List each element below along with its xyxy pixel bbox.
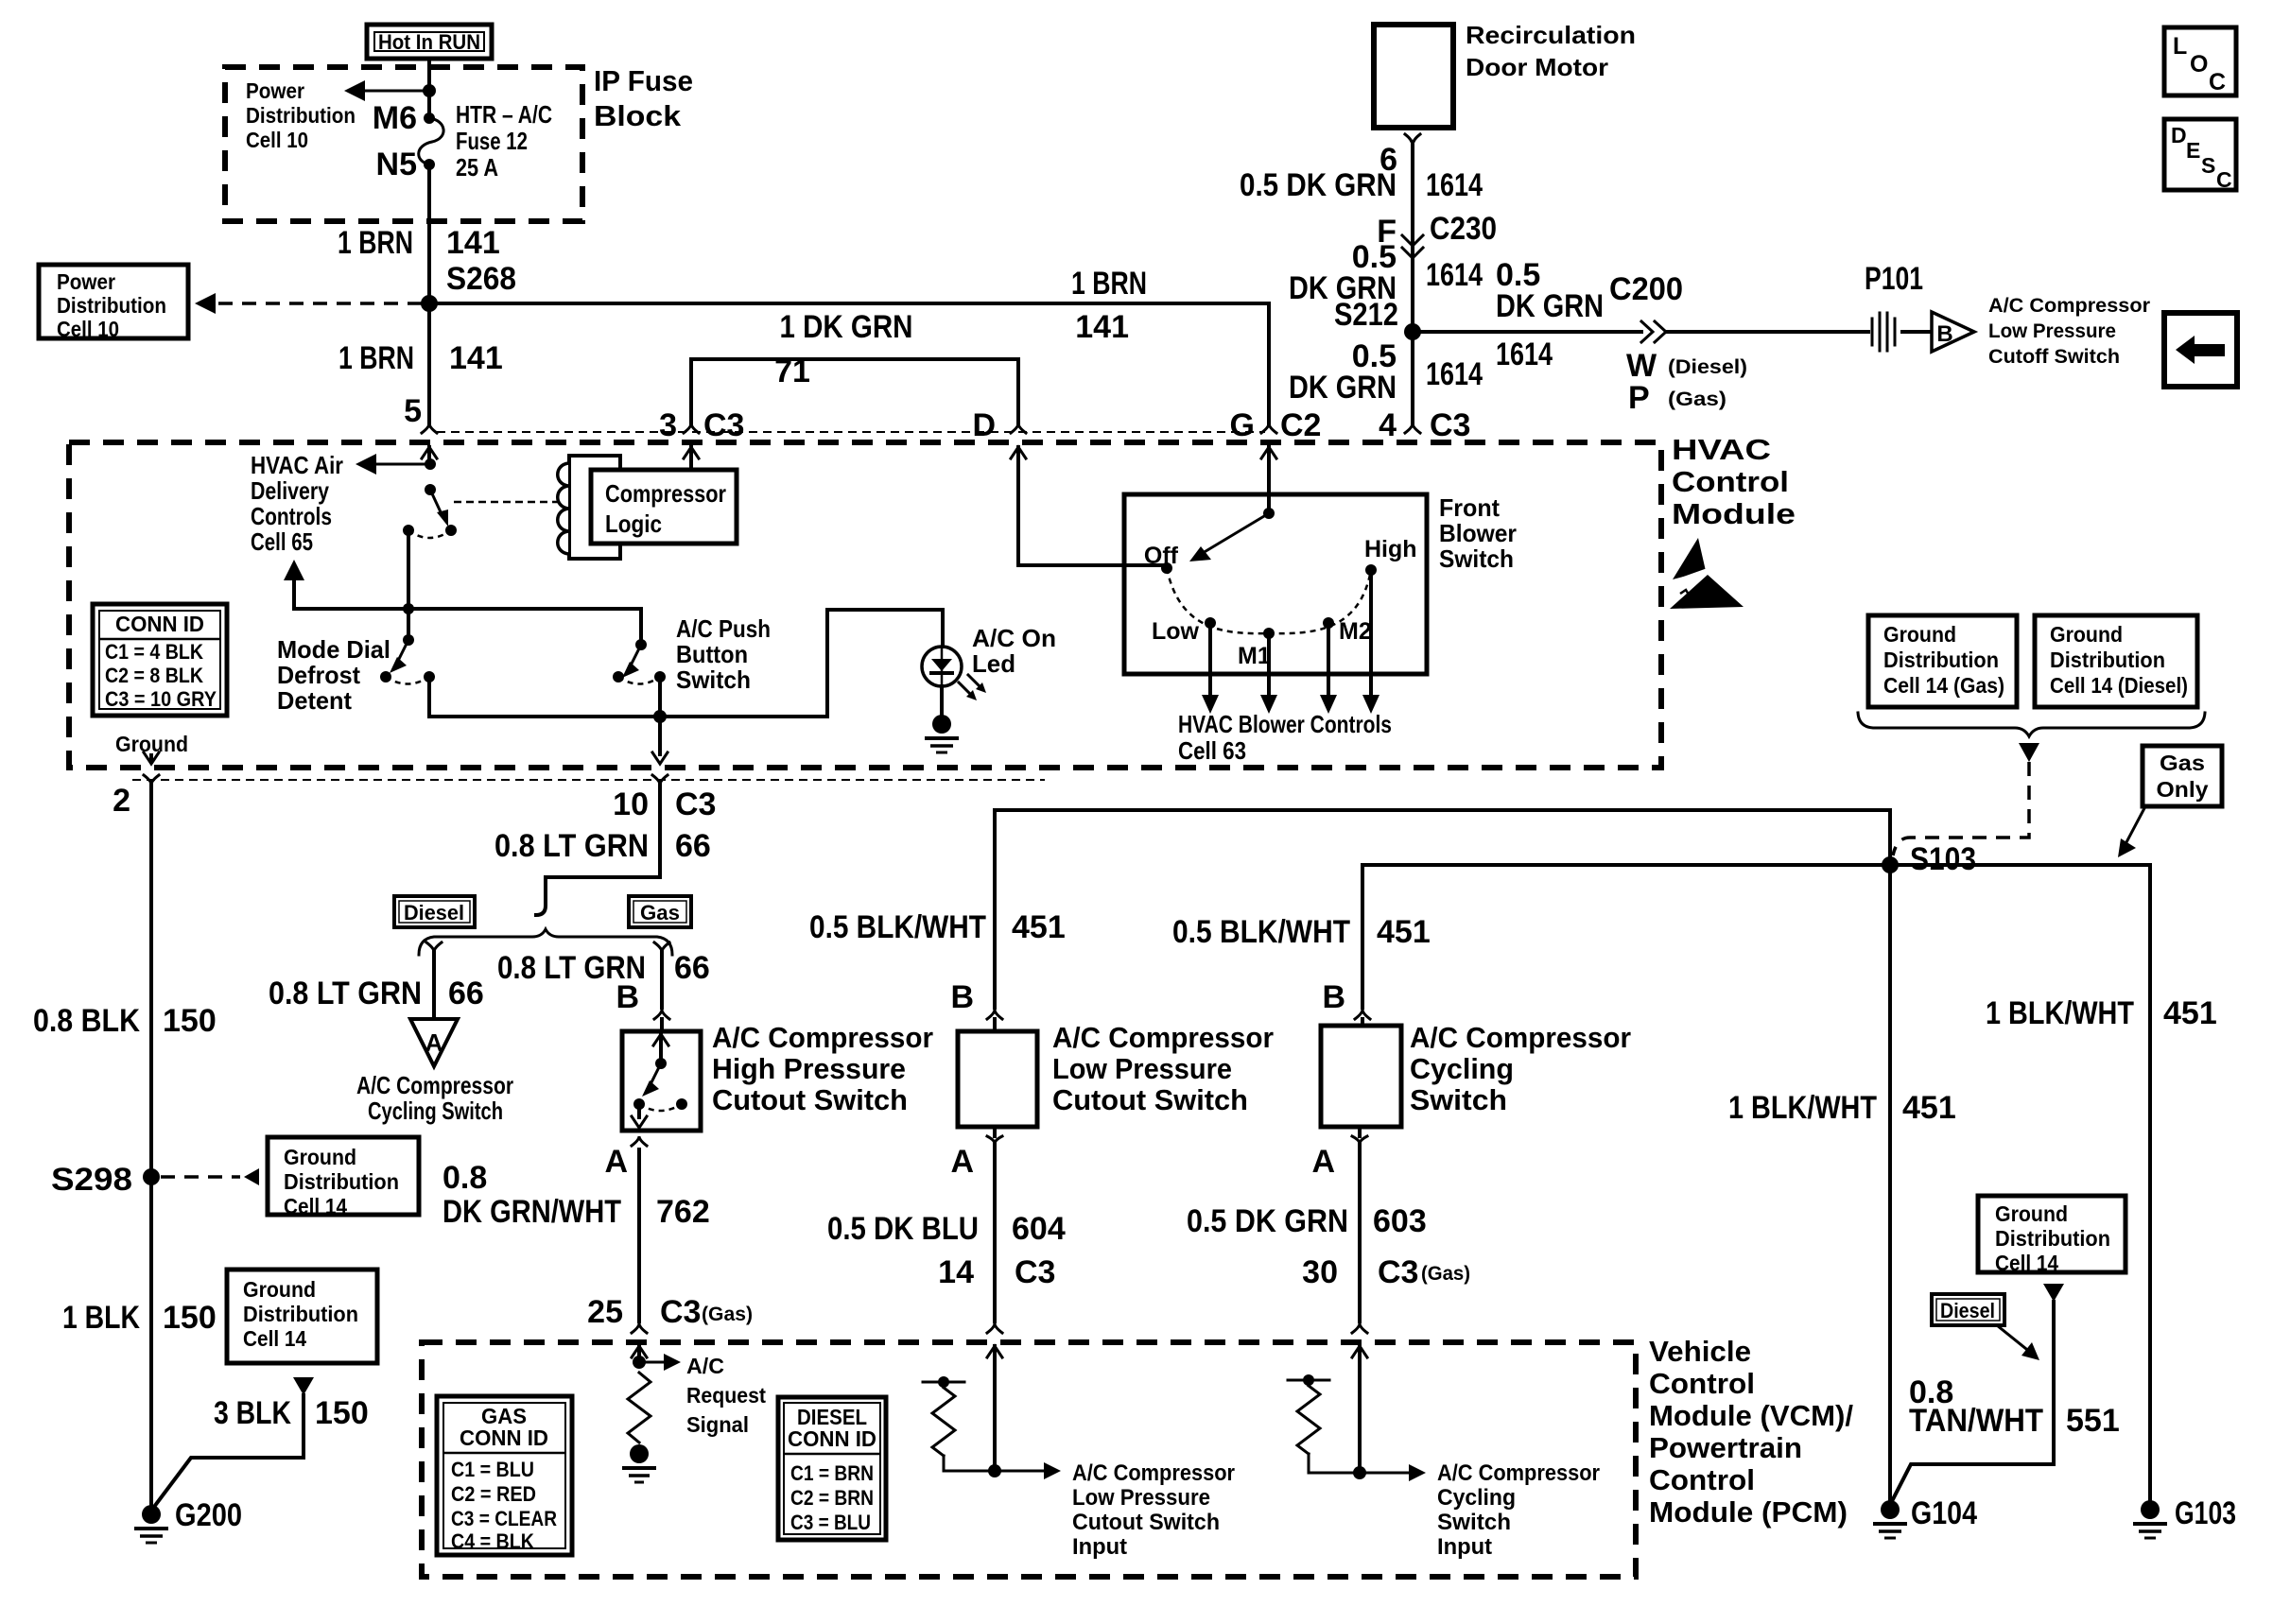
svg-text:A/C On: A/C On [972, 624, 1056, 652]
svg-text:HVAC: HVAC [1672, 433, 1771, 466]
svg-text:E: E [2186, 138, 2200, 163]
svg-text:0.8 BLK: 0.8 BLK [33, 1003, 140, 1039]
svg-text:1 BRN: 1 BRN [338, 225, 413, 261]
svg-text:C3: C3 [1430, 407, 1470, 443]
svg-text:High: High [1364, 536, 1417, 562]
svg-text:IP Fuse: IP Fuse [594, 64, 693, 97]
svg-text:Controls: Controls [251, 502, 332, 530]
svg-text:Cutout Switch: Cutout Switch [712, 1083, 908, 1116]
svg-text:C1 = BRN: C1 = BRN [790, 1461, 874, 1485]
svg-text:0.5 DK GRN: 0.5 DK GRN [1240, 167, 1397, 203]
svg-text:G: G [1230, 407, 1255, 443]
svg-text:Led: Led [972, 649, 1015, 678]
svg-text:A/C: A/C [686, 1354, 724, 1378]
svg-text:C3: C3 [675, 786, 716, 822]
svg-text:TAN/WHT: TAN/WHT [1909, 1403, 2043, 1439]
svg-text:141: 141 [446, 225, 500, 261]
svg-text:C: C [2209, 69, 2226, 95]
svg-text:Only: Only [2157, 777, 2209, 802]
svg-text:Ground: Ground [115, 732, 188, 756]
svg-text:Cell 65: Cell 65 [251, 527, 313, 556]
svg-text:0.8 LT GRN: 0.8 LT GRN [495, 828, 649, 864]
svg-text:Fuse 12: Fuse 12 [456, 127, 528, 155]
svg-text:HTR – A/C: HTR – A/C [456, 100, 552, 129]
svg-text:Door Motor: Door Motor [1466, 53, 1608, 81]
svg-text:C230: C230 [1430, 211, 1497, 247]
svg-text:0.5 DK GRN: 0.5 DK GRN [1187, 1203, 1348, 1239]
svg-text:Block: Block [594, 99, 682, 132]
svg-text:5: 5 [404, 393, 422, 429]
svg-text:141: 141 [449, 340, 503, 376]
svg-text:Diesel: Diesel [1940, 1299, 1995, 1322]
svg-text:S298: S298 [51, 1162, 132, 1198]
svg-text:C3: C3 [703, 407, 744, 443]
svg-text:DK GRN: DK GRN [1496, 288, 1604, 324]
svg-text:A/C Compressor: A/C Compressor [356, 1071, 513, 1099]
svg-text:W: W [1626, 348, 1657, 384]
svg-text:S268: S268 [446, 261, 516, 297]
svg-text:Cell 14 (Diesel): Cell 14 (Diesel) [2050, 673, 2188, 698]
svg-text:Control: Control [1649, 1463, 1755, 1496]
svg-text:DK GRN: DK GRN [1289, 370, 1397, 406]
svg-text:Switch: Switch [1439, 544, 1514, 573]
svg-text:Cutoff Switch: Cutoff Switch [1988, 346, 2120, 368]
svg-text:O: O [2190, 51, 2208, 78]
svg-text:451: 451 [1902, 1090, 1956, 1126]
svg-text:150: 150 [163, 1003, 217, 1039]
svg-text:C3 = BLU: C3 = BLU [790, 1511, 871, 1534]
svg-text:Distribution: Distribution [284, 1169, 399, 1194]
svg-text:G104: G104 [1911, 1495, 1977, 1531]
svg-text:C2 = RED: C2 = RED [451, 1482, 536, 1506]
svg-text:M2: M2 [1339, 618, 1372, 645]
svg-text:Vehicle: Vehicle [1649, 1335, 1751, 1368]
svg-text:L: L [2173, 33, 2187, 60]
svg-text:30: 30 [1302, 1254, 1338, 1290]
svg-text:B: B [1322, 979, 1345, 1015]
svg-text:451: 451 [2163, 995, 2217, 1031]
svg-text:Distribution: Distribution [243, 1302, 358, 1326]
svg-text:P: P [1628, 380, 1650, 416]
svg-text:1 DK GRN: 1 DK GRN [780, 309, 913, 345]
svg-text:Ground: Ground [243, 1277, 316, 1302]
svg-text:Ground: Ground [284, 1145, 356, 1169]
svg-text:Compressor: Compressor [605, 479, 726, 508]
svg-text:C2 = 8 BLK: C2 = 8 BLK [105, 664, 203, 687]
svg-text:Cell 14: Cell 14 [284, 1194, 347, 1218]
svg-text:66: 66 [448, 976, 484, 1011]
svg-text:Distribution: Distribution [1995, 1226, 2110, 1251]
svg-text:S212: S212 [1334, 297, 1398, 333]
svg-text:Cycling: Cycling [1410, 1052, 1514, 1085]
svg-text:Cell 14: Cell 14 [243, 1326, 306, 1351]
svg-text:M6: M6 [373, 100, 417, 136]
svg-text:D: D [2171, 123, 2187, 147]
svg-text:Cutout Switch: Cutout Switch [1072, 1510, 1220, 1535]
svg-text:HVAC Air: HVAC Air [251, 451, 343, 479]
svg-text:Ground: Ground [2050, 622, 2123, 647]
svg-text:(Gas): (Gas) [702, 1304, 753, 1325]
svg-text:C3: C3 [1015, 1254, 1055, 1290]
svg-text:Diesel: Diesel [404, 901, 464, 924]
svg-text:150: 150 [163, 1300, 217, 1336]
svg-text:451: 451 [1012, 909, 1066, 945]
svg-text:0.5 BLK/WHT: 0.5 BLK/WHT [1172, 914, 1350, 950]
svg-text:Request: Request [686, 1383, 766, 1408]
svg-text:C3: C3 [660, 1294, 701, 1330]
svg-text:1 BLK/WHT: 1 BLK/WHT [1986, 995, 2134, 1031]
svg-text:Button: Button [676, 640, 748, 668]
svg-text:1 BLK/WHT: 1 BLK/WHT [1728, 1090, 1877, 1126]
svg-text:A: A [950, 1144, 974, 1180]
svg-text:Delivery: Delivery [251, 476, 329, 505]
svg-text:Input: Input [1072, 1534, 1127, 1560]
svg-text:Power: Power [57, 269, 115, 294]
svg-text:551: 551 [2066, 1403, 2120, 1439]
svg-text:3 BLK: 3 BLK [214, 1395, 291, 1431]
svg-text:C1 = BLU: C1 = BLU [451, 1458, 534, 1481]
svg-text:A: A [1311, 1144, 1335, 1180]
svg-text:Logic: Logic [605, 510, 662, 538]
svg-text:N5: N5 [376, 147, 417, 182]
svg-text:1614: 1614 [1496, 337, 1553, 372]
svg-text:Distribution: Distribution [246, 103, 356, 128]
svg-text:G200: G200 [175, 1497, 242, 1533]
svg-text:CONN ID: CONN ID [460, 1425, 548, 1450]
svg-text:Defrost: Defrost [277, 661, 360, 689]
svg-text:G103: G103 [2175, 1495, 2236, 1531]
svg-text:A/C Compressor: A/C Compressor [1437, 1460, 1600, 1486]
svg-text:Mode Dial: Mode Dial [277, 635, 390, 664]
svg-text:Low Pressure: Low Pressure [1052, 1052, 1232, 1085]
svg-text:0.5 BLK/WHT: 0.5 BLK/WHT [809, 909, 986, 945]
svg-text:Recirculation: Recirculation [1466, 21, 1636, 49]
svg-text:D: D [972, 407, 996, 443]
svg-text:Distribution: Distribution [57, 293, 166, 318]
svg-text:C3 = CLEAR: C3 = CLEAR [451, 1507, 557, 1530]
svg-text:A/C Compressor: A/C Compressor [1052, 1021, 1274, 1054]
svg-text:(Gas): (Gas) [1668, 389, 1726, 410]
svg-text:A/C Compressor: A/C Compressor [1410, 1021, 1631, 1054]
svg-text:Cell 14 (Gas): Cell 14 (Gas) [1883, 673, 2004, 698]
svg-text:Detent: Detent [277, 686, 352, 715]
svg-text:M1: M1 [1238, 643, 1271, 669]
svg-text:C200: C200 [1609, 271, 1683, 307]
svg-text:A/C Compressor: A/C Compressor [1988, 295, 2150, 317]
svg-text:Cell 10: Cell 10 [57, 317, 119, 341]
svg-text:C3: C3 [1378, 1254, 1418, 1290]
svg-text:1614: 1614 [1426, 356, 1483, 392]
svg-text:Module (PCM): Module (PCM) [1649, 1495, 1848, 1529]
svg-text:A/C Compressor: A/C Compressor [1072, 1460, 1235, 1486]
svg-text:3: 3 [659, 407, 677, 443]
svg-text:Off: Off [1144, 543, 1179, 569]
svg-text:10: 10 [613, 786, 649, 822]
svg-text:Gas: Gas [2160, 751, 2205, 775]
svg-text:451: 451 [1377, 914, 1431, 950]
svg-text:Blower: Blower [1439, 519, 1517, 547]
svg-text:Hot In RUN: Hot In RUN [378, 30, 480, 54]
svg-text:Control: Control [1649, 1367, 1755, 1400]
svg-text:Module (VCM)/: Module (VCM)/ [1649, 1399, 1853, 1432]
svg-text:Switch: Switch [1410, 1083, 1507, 1116]
svg-text:Cutout Switch: Cutout Switch [1052, 1083, 1248, 1116]
svg-text:Control: Control [1672, 465, 1789, 498]
svg-text:1614: 1614 [1426, 167, 1483, 203]
svg-text:Gas: Gas [640, 901, 680, 924]
svg-text:Power: Power [246, 78, 304, 103]
svg-text:0.8 LT GRN: 0.8 LT GRN [269, 976, 422, 1011]
svg-text:Cycling Switch: Cycling Switch [368, 1097, 503, 1125]
svg-text:C: C [2216, 167, 2232, 192]
svg-text:0.8: 0.8 [442, 1160, 487, 1196]
svg-text:Low: Low [1152, 618, 1200, 645]
svg-text:CONN ID: CONN ID [115, 612, 204, 636]
svg-text:4: 4 [1379, 407, 1397, 443]
svg-text:603: 603 [1373, 1203, 1427, 1239]
svg-text:Switch: Switch [1437, 1510, 1511, 1535]
svg-text:Powertrain: Powertrain [1649, 1431, 1802, 1464]
svg-text:C2 = BRN: C2 = BRN [790, 1486, 874, 1510]
svg-text:1 BRN: 1 BRN [1071, 266, 1147, 302]
svg-text:Cycling: Cycling [1437, 1485, 1516, 1511]
svg-text:141: 141 [1075, 309, 1129, 345]
svg-text:Switch: Switch [676, 665, 751, 694]
svg-text:71: 71 [774, 354, 810, 389]
svg-text:1614: 1614 [1426, 257, 1483, 293]
svg-text:762: 762 [656, 1194, 710, 1230]
svg-text:S: S [2201, 153, 2215, 178]
svg-text:P101: P101 [1865, 261, 1923, 297]
svg-text:Module: Module [1672, 497, 1796, 530]
svg-text:A: A [604, 1144, 628, 1180]
svg-text:(Diesel): (Diesel) [1668, 356, 1747, 378]
svg-text:25 A: 25 A [456, 153, 498, 181]
svg-text:150: 150 [315, 1395, 369, 1431]
svg-text:(Gas): (Gas) [1421, 1263, 1470, 1285]
svg-text:1 BRN: 1 BRN [338, 340, 414, 376]
svg-text:Distribution: Distribution [1883, 648, 1999, 672]
svg-text:B: B [616, 979, 639, 1015]
svg-text:Low Pressure: Low Pressure [1988, 320, 2116, 342]
svg-text:B: B [1936, 321, 1952, 347]
svg-text:A: A [425, 1028, 443, 1057]
svg-text:604: 604 [1012, 1211, 1066, 1247]
svg-text:Ground: Ground [1995, 1201, 2068, 1226]
svg-text:B: B [950, 979, 974, 1015]
svg-text:Front: Front [1439, 493, 1500, 522]
svg-text:C1 = 4 BLK: C1 = 4 BLK [105, 640, 203, 664]
svg-text:C2: C2 [1280, 407, 1321, 443]
svg-text:A/C Push: A/C Push [676, 614, 771, 643]
svg-text:High Pressure: High Pressure [712, 1052, 906, 1085]
svg-text:66: 66 [674, 950, 710, 986]
svg-text:C3 = 10 GRY: C3 = 10 GRY [105, 687, 217, 711]
svg-text:2: 2 [113, 783, 130, 819]
svg-text:CONN ID: CONN ID [788, 1426, 876, 1451]
svg-text:1 BLK: 1 BLK [62, 1300, 140, 1336]
svg-text:Cell 14: Cell 14 [1995, 1251, 2058, 1275]
svg-text:HVAC Blower Controls: HVAC Blower Controls [1178, 710, 1392, 738]
svg-text:25: 25 [587, 1294, 623, 1330]
svg-text:14: 14 [938, 1254, 974, 1290]
svg-text:Cell 10: Cell 10 [246, 128, 308, 152]
svg-text:66: 66 [675, 828, 711, 864]
svg-text:Low Pressure: Low Pressure [1072, 1485, 1210, 1511]
svg-text:A/C Compressor: A/C Compressor [712, 1021, 933, 1054]
svg-text:Input: Input [1437, 1534, 1492, 1560]
svg-text:Ground: Ground [1883, 622, 1956, 647]
svg-text:Distribution: Distribution [2050, 648, 2165, 672]
svg-text:Signal: Signal [686, 1412, 749, 1437]
svg-text:0.5 DK BLU: 0.5 DK BLU [827, 1211, 979, 1247]
svg-text:DK GRN/WHT: DK GRN/WHT [442, 1194, 621, 1230]
svg-text:Cell 63: Cell 63 [1178, 736, 1246, 765]
svg-text:S103: S103 [1910, 841, 1976, 877]
svg-text:C4 = BLK: C4 = BLK [451, 1529, 534, 1553]
